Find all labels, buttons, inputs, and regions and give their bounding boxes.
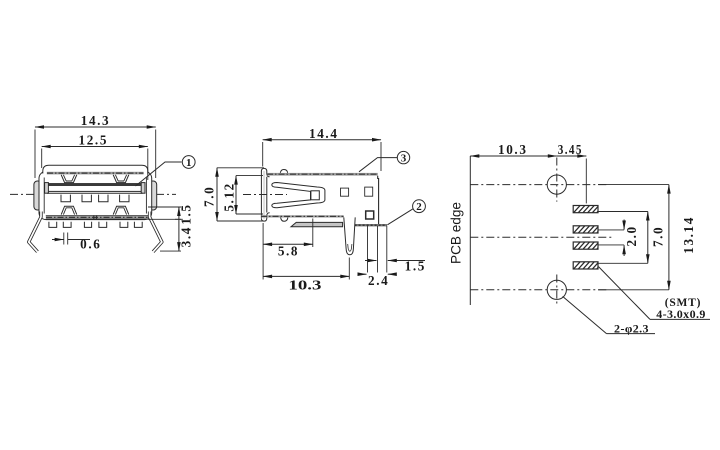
bottom bump — [281, 218, 288, 222]
dim 3.4 / 1.5 — [148, 207, 181, 251]
top dimple right — [113, 175, 129, 183]
dim 2.4 — [359, 273, 367, 275]
bottom dimple right — [113, 206, 129, 214]
dim 14.4 — [263, 142, 381, 171]
pad 2 — [573, 226, 598, 233]
right edge — [377, 176, 380, 225]
svg-text:10.3: 10.3 — [288, 277, 322, 292]
svg-text:5.12: 5.12 — [221, 182, 236, 211]
stub pad4 — [598, 262, 648, 264]
dim 7.0 pcb — [647, 212, 649, 264]
bottom seam — [94, 215, 97, 220]
pad 1 — [573, 206, 598, 213]
centerline side view — [243, 194, 287, 196]
dim 3.45 pcb — [585, 159, 587, 204]
svg-text:12.5: 12.5 — [79, 133, 108, 148]
foot 2 — [63, 222, 71, 228]
pin inner tip — [348, 244, 352, 251]
rear foot band — [355, 224, 387, 226]
verticals below rear — [368, 226, 387, 273]
shell top band — [47, 172, 144, 175]
dim 13.14 — [598, 185, 669, 290]
svg-text:3: 3 — [401, 152, 407, 164]
balloon 2 — [413, 200, 426, 213]
tongue end cap left — [45, 183, 49, 194]
ledge — [291, 222, 343, 226]
svg-text:3.45: 3.45 — [558, 142, 583, 157]
hole bottom — [547, 280, 566, 299]
svg-text:5.8: 5.8 — [278, 243, 299, 258]
shell top band side — [267, 173, 378, 176]
svg-text:13.14: 13.14 — [681, 216, 696, 254]
dim 0.6 — [64, 233, 68, 245]
dim 14.3 — [35, 130, 156, 179]
top bump — [280, 169, 287, 172]
dim 2.0 — [623, 220, 625, 230]
contact 1 — [61, 195, 70, 202]
svg-text:1: 1 — [186, 157, 192, 169]
dim 5.8 — [263, 219, 313, 280]
svg-text:2.0: 2.0 — [624, 225, 639, 246]
hole top — [547, 175, 566, 194]
svg-text:4-3.0x0.9: 4-3.0x0.9 — [656, 307, 706, 321]
svg-text:7.0: 7.0 — [650, 226, 665, 247]
shell bottom band — [46, 216, 148, 219]
tongue — [47, 184, 143, 192]
stub pad2 — [598, 229, 624, 231]
svg-text:3.4: 3.4 — [179, 226, 194, 247]
foot 6 — [134, 222, 142, 228]
right leg wire — [150, 212, 162, 252]
pad 3 — [573, 242, 598, 249]
stub pad3 — [598, 244, 624, 246]
left ear — [34, 181, 42, 210]
dim 1.5 — [365, 260, 377, 262]
leader holes — [563, 296, 655, 333]
leader smt — [599, 267, 711, 320]
pin — [344, 217, 355, 254]
svg-text:10.3: 10.3 — [498, 142, 527, 157]
flange bottom hook — [261, 213, 269, 221]
centerline front view — [10, 193, 176, 195]
hole bottom crosslines — [470, 275, 609, 306]
shell inner walls — [44, 178, 146, 214]
right ear — [149, 181, 157, 210]
foot 1 — [49, 222, 57, 228]
balloon 3 — [397, 151, 409, 163]
stub pad1 — [598, 211, 648, 213]
svg-text:1.5: 1.5 — [405, 259, 426, 274]
foot 5 — [120, 222, 128, 228]
shell window 2 — [365, 187, 373, 196]
flange top hook — [261, 168, 269, 176]
svg-text:0.6: 0.6 — [80, 237, 101, 252]
tongue end cap right — [141, 183, 145, 194]
foot 3 — [84, 222, 91, 228]
pad hatch pattern — [0, 0, 1, 1]
shell cap — [43, 165, 148, 173]
dim 12.5 — [42, 149, 148, 181]
foot 4 — [99, 222, 107, 228]
left leg wire — [29, 212, 41, 252]
top dimple left — [61, 175, 77, 183]
shell window 1 — [341, 188, 349, 196]
shell outline — [39, 171, 152, 219]
svg-text:2-φ2.3: 2-φ2.3 — [614, 321, 649, 335]
hole top crosslines — [470, 158, 609, 202]
svg-text:2.4: 2.4 — [368, 273, 389, 288]
balloon 1 — [182, 156, 195, 169]
v-latch — [272, 183, 325, 208]
svg-text:14.4: 14.4 — [309, 126, 338, 141]
flange — [261, 169, 267, 222]
rear lower window — [366, 211, 374, 219]
contact 3 — [99, 195, 108, 202]
svg-text:14.3: 14.3 — [81, 113, 110, 128]
svg-text:1.5: 1.5 — [179, 203, 194, 224]
svg-text:PCB edge: PCB edge — [449, 202, 464, 264]
bottom band side — [261, 215, 344, 217]
dim 7.0 side — [217, 168, 264, 221]
svg-text:2: 2 — [416, 201, 422, 213]
dim 10.3 pcb — [470, 155, 557, 157]
pad 4 — [573, 262, 598, 269]
PCB edge line — [469, 156, 471, 305]
svg-text:7.0: 7.0 — [201, 186, 216, 207]
pcb axis centerline — [470, 236, 612, 238]
tongue base line — [47, 192, 143, 194]
bottom dimple left — [61, 206, 77, 214]
dim 10.3 side — [348, 258, 350, 280]
contact 4 — [120, 195, 129, 202]
dim 5.12 side — [236, 176, 263, 214]
contact 2 — [82, 195, 91, 202]
v-latch window — [311, 191, 319, 200]
